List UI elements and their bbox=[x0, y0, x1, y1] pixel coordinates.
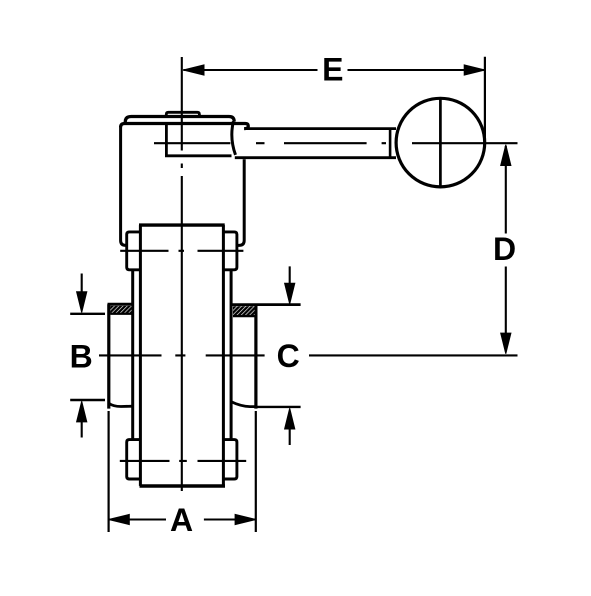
svg-text:D: D bbox=[493, 231, 516, 267]
svg-text:B: B bbox=[70, 338, 93, 374]
svg-text:E: E bbox=[322, 51, 343, 87]
svg-text:C: C bbox=[277, 338, 300, 374]
svg-text:A: A bbox=[170, 502, 193, 538]
